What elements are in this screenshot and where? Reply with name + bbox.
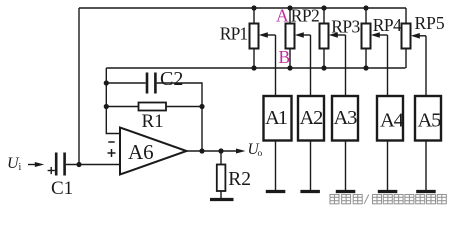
resistor R2 [217,165,226,192]
node RP1 top dot [251,5,256,10]
wire R1 right lead [166,106,202,108]
node output R2 tap dot [218,148,223,153]
wire bottom rail (bus B) [106,67,405,69]
svg-text:C1: C1 [51,178,73,199]
op-amp minus sign [108,141,114,143]
amplifier block A3 [332,96,358,141]
resistor R1 [139,103,167,111]
wire A3 to ground [345,141,347,191]
svg-text:RP5: RP5 [415,13,445,33]
wire A4 to ground [387,141,389,191]
potentiometer RP1 [250,8,276,96]
svg-text:R1: R1 [142,111,164,132]
svg-text:A5: A5 [418,110,442,132]
wire op-amp output line [187,150,239,152]
node RP1 bottom dot [251,65,256,70]
watermark pseudo-CJK text [330,195,446,204]
node feedback left R1 junction dot [104,104,109,109]
ground of R2 [210,198,234,201]
node output feedback tap dot [199,148,204,153]
ground of A1 [266,190,286,193]
svg-text:A: A [276,6,289,26]
wire top rail (bus A) [79,7,406,9]
wire A5 to ground [425,141,427,191]
svg-text:RP2: RP2 [291,5,319,25]
ground of A4 [378,190,398,193]
svg-text:A1: A1 [265,107,288,129]
amplifier block A2 [298,96,324,141]
polarity + of C1 [48,167,55,174]
wire R1 left lead [106,106,138,108]
wire A2 to ground [310,141,312,191]
node RP4 top dot [363,5,368,10]
svg-text:i: i [19,162,22,173]
potentiometer RP2 [286,8,311,96]
op-amp plus sign [108,149,116,157]
potentiometer RP3 [320,8,346,96]
node feedback right R1 junction dot [199,104,204,109]
node feedback left C2 junction dot [104,80,109,85]
node RP2 top dot [287,5,292,10]
node RP4 bottom dot [363,65,368,70]
node RP3 top dot [321,5,326,10]
potentiometer RP5 [402,8,427,96]
svg-text:A6: A6 [128,140,154,164]
svg-text:A3: A3 [334,107,358,129]
svg-text:A2: A2 [300,107,324,129]
wire R2 bottom lead [220,191,222,198]
op-amp A6 [120,128,187,175]
svg-text:RP1: RP1 [220,23,248,43]
svg-text:C2: C2 [160,68,183,90]
node RP3 bottom dot [321,65,326,70]
wire input line from C1 to op-amp + input [66,164,120,166]
wire left vertical from top rail to input node [78,8,80,165]
amplifier block A4 [377,96,403,141]
svg-text:o: o [258,149,263,159]
potentiometer RP4 [362,8,388,96]
wire feedback left vertical to inverting input [106,68,120,134]
ground of A2 [300,190,320,193]
node RP2 bottom dot [287,65,292,70]
amplifier block A1 [264,96,292,141]
amplifier block A5 [415,96,441,141]
input source arrow Ui [28,162,44,167]
svg-text:R2: R2 [228,169,251,190]
capacitor C1 [56,153,64,176]
svg-text:B: B [279,47,291,67]
wire C2 left lead [106,82,145,84]
wire R2 top lead [220,151,222,165]
output arrow Uo [236,149,246,154]
ground of A3 [336,190,356,193]
svg-text:RP3: RP3 [331,16,360,36]
svg-text:A4: A4 [380,110,404,132]
ground of A5 [416,190,436,193]
wire C2 right lead [157,83,202,151]
svg-text:RP4: RP4 [373,15,402,35]
wire A1 to ground [275,141,277,191]
node input junction dot [76,162,81,167]
capacitor C2 [147,73,155,94]
